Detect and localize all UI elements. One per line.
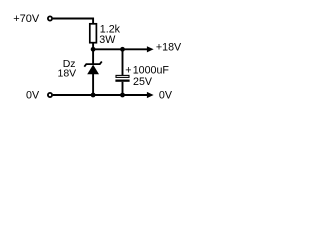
wire input to resistor top: [53, 19, 93, 24]
wire resistor bottom to +18V rail: [92, 43, 94, 50]
node dot capacitor bottom: [120, 93, 125, 98]
zener diode Dz triangle: [87, 65, 99, 75]
wire zener cathode: [92, 49, 94, 64]
svg-text:0V: 0V: [159, 90, 173, 102]
wire capacitor top: [122, 49, 124, 75]
svg-text:1000uF: 1000uF: [133, 64, 170, 76]
node dot resistor/zener junction: [91, 47, 96, 52]
svg-text:+18V: +18V: [156, 42, 182, 54]
svg-text:3W: 3W: [99, 34, 116, 46]
terminal 0V: [48, 93, 52, 97]
svg-text:+70V: +70V: [13, 13, 40, 25]
svg-text:0V: 0V: [26, 90, 40, 102]
wire 0V rail: [53, 94, 148, 96]
wire +18V rail: [93, 48, 148, 50]
svg-text:18V: 18V: [58, 67, 77, 79]
svg-text:25V: 25V: [133, 76, 153, 88]
wire zener anode to 0V rail: [92, 74, 94, 95]
svg-text:+: +: [125, 64, 131, 76]
capacitor C1 negative plate: [115, 80, 129, 82]
terminal +70V: [48, 16, 52, 20]
arrow 0V: [147, 92, 154, 98]
zener diode Dz cathode bar: [84, 62, 102, 67]
wire capacitor bottom: [122, 82, 124, 95]
node dot capacitor top: [120, 47, 125, 52]
node dot zener anode: [91, 93, 96, 98]
arrow +18V: [147, 46, 154, 52]
capacitor C1 positive plate: [116, 75, 129, 77]
resistor R1: [90, 24, 97, 43]
